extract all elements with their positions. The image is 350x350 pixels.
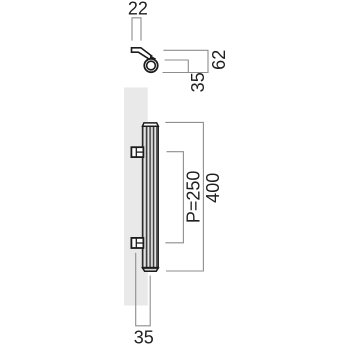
handle tube bottom end cap (side view) — [143, 268, 159, 271]
dim label P=250 — [184, 171, 204, 224]
dim lines 35 (bottom offset) — [136, 253, 151, 326]
dim lines P=250 (pitch) — [165, 152, 183, 243]
arm-to-tube joint wedge (top view) — [149, 56, 156, 62]
dim lines 35 (top view offset) — [165, 60, 189, 73]
svg-text:62: 62 — [209, 50, 229, 70]
handle tube top end cap (side view) — [143, 123, 159, 126]
lower bracket (side view) — [131, 238, 143, 248]
dim lines 22 — [132, 18, 141, 41]
svg-text:35: 35 — [188, 72, 208, 92]
handle tube flute lines (side view) — [147, 126, 157, 268]
handle tube body shading (side view) — [143, 126, 159, 268]
handle tube cross-section inner ring (top view) — [147, 61, 156, 70]
dim lines 400 (overall height) — [165, 122, 203, 271]
dim label 400 — [203, 173, 223, 203]
dim label 35 (bottom) — [134, 327, 154, 347]
door panel (side view, light gray stripe) — [124, 88, 148, 306]
dim label 62 — [209, 50, 229, 70]
upper bracket (side view) — [131, 147, 143, 157]
mounting plate and arm (top view) — [132, 48, 152, 60]
svg-text:22: 22 — [128, 0, 148, 19]
dim label 22 (top view width) — [128, 0, 148, 19]
dim label 35 (top view) — [188, 72, 208, 92]
handle tube outline (side view) — [143, 126, 159, 268]
dim lines 62 (top view depth) — [163, 50, 209, 72]
svg-text:35: 35 — [134, 327, 154, 347]
handle tube cross-section outer ring (top view) — [144, 59, 157, 72]
svg-text:400: 400 — [203, 173, 223, 203]
svg-text:P=250: P=250 — [184, 171, 204, 224]
